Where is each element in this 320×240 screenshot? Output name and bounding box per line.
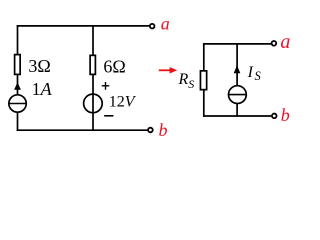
current source 1A arrow (14, 82, 21, 90)
wire: left branch lower vertical (17, 112, 19, 131)
wire: middle branch upper vertical (92, 25, 94, 55)
svg-text:IS: IS (247, 64, 262, 83)
transform arrow (red) (159, 67, 178, 73)
svg-text:b: b (159, 120, 168, 140)
wire: right circuit bottom horizontal (203, 115, 271, 117)
wire: right circuit top horizontal (203, 43, 271, 45)
svg-text:1A: 1A (32, 79, 53, 99)
wire: right left branch upper vertical (203, 43, 205, 71)
svg-text:a: a (161, 13, 170, 33)
svg-text:6Ω: 6Ω (103, 56, 125, 76)
resistor 3ohm (15, 55, 21, 75)
svg-text:b: b (281, 105, 290, 125)
wire: left circuit bottom horizontal (17, 129, 148, 131)
voltage source minus sign (104, 115, 113, 117)
terminal b (right circuit) (272, 114, 277, 119)
terminal b (left circuit) (148, 128, 153, 133)
terminal a (right circuit) (272, 41, 277, 46)
wire: left branch between resistor and current source (17, 75, 19, 95)
wire: right middle branch lower vertical (236, 104, 238, 117)
resistor 6ohm (90, 55, 95, 74)
voltage source plus sign (102, 85, 110, 87)
voltage source 12V circle (84, 94, 103, 113)
svg-text:3Ω: 3Ω (28, 56, 50, 76)
wire: middle branch through voltage source (92, 74, 94, 131)
svg-text:a: a (280, 31, 290, 53)
wire: right left branch lower vertical (203, 90, 205, 117)
wire: left branch upper vertical (17, 25, 19, 54)
svg-text:12V: 12V (109, 94, 137, 111)
current source 1A circle (9, 95, 26, 112)
current source IS arrow (234, 65, 241, 73)
wire: right middle branch upper vertical (236, 44, 238, 86)
resistor RS (200, 71, 206, 90)
wire: left circuit top horizontal (17, 25, 150, 27)
current source 1A bar (9, 103, 26, 105)
svg-text:RS: RS (178, 71, 195, 91)
current source IS circle (229, 86, 247, 104)
current source IS bar (229, 94, 247, 96)
terminal a (left circuit) (150, 24, 155, 29)
